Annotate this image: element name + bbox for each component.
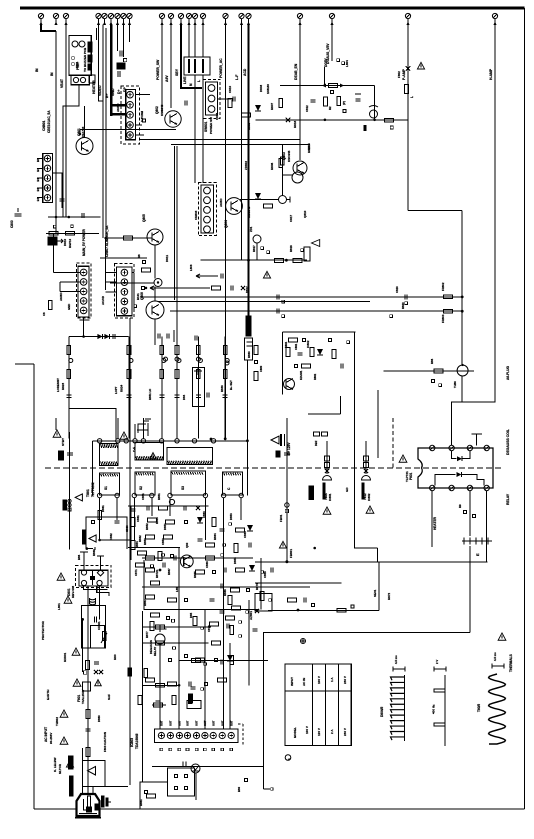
svg-text:D810: D810 <box>63 238 67 246</box>
svg-text:R816: R816 <box>293 120 297 128</box>
svg-text:3.3V/8M: 3.3V/8M <box>140 110 144 122</box>
T801 riser 177 <box>176 438 178 440</box>
svg-text:R818: R818 <box>289 245 293 252</box>
bottom small parts <box>139 791 156 807</box>
res R806 <box>242 113 251 117</box>
schematic sheet border left <box>33 364 35 809</box>
AC chain wire2 <box>99 586 101 619</box>
connector CN801 <box>43 154 53 203</box>
svg-text:B1: B1 <box>36 197 40 201</box>
chain x161 <box>159 337 166 439</box>
rail y301 <box>158 301 371 303</box>
cluster opto <box>288 598 315 612</box>
svg-text:IC852: IC852 <box>367 493 371 501</box>
bridge D801 dashed box <box>75 565 111 587</box>
svg-text:FR802: FR802 <box>441 282 445 291</box>
wire x462 mid <box>461 210 463 365</box>
svg-text:KSC945: KSC945 <box>247 206 251 218</box>
CN802 right stubs <box>136 95 151 135</box>
sec extra parts3 <box>206 543 252 553</box>
warn tri i <box>66 760 73 767</box>
connector CN807 body <box>117 267 132 316</box>
svg-text:R80: R80 <box>113 654 117 660</box>
plug bottom plate <box>75 817 101 819</box>
isolation dashed vertical <box>392 418 394 468</box>
sec rail y558 <box>142 557 253 559</box>
T801 riser 135 <box>134 424 136 439</box>
bridge D801 body <box>79 570 108 586</box>
aux vertical x69 <box>69 432 71 549</box>
wire x495 drop <box>452 25 495 446</box>
SW801 body <box>206 82 218 115</box>
svg-text:100 V: 100 V <box>317 676 321 684</box>
junction circle Q803 emitter <box>240 196 290 204</box>
sec vert x127 <box>129 318 131 785</box>
h-rail y610 <box>268 609 379 611</box>
warn tri c <box>120 432 128 439</box>
warn tri bridge <box>57 573 65 580</box>
label posistor <box>430 358 457 388</box>
wire Q806 net <box>154 287 156 302</box>
label Q805 cluster <box>140 214 169 300</box>
svg-text:R9: R9 <box>458 504 462 508</box>
bus x177 long <box>176 146 178 439</box>
plug right bracket <box>102 796 112 807</box>
bridge risers <box>80 552 104 570</box>
svg-text:R820: R820 <box>401 302 405 309</box>
transistor Q807 <box>180 555 193 568</box>
T801 winding S2 <box>135 472 155 495</box>
vert x56 low <box>55 418 57 430</box>
svg-text:TDA16846: TDA16846 <box>135 733 139 749</box>
pin row dashed corner <box>238 724 243 745</box>
terminal pad P20 <box>329 13 334 25</box>
svg-text:KSC945: KSC945 <box>160 104 164 116</box>
ic feed x160 <box>159 644 161 729</box>
svg-text:IN: IN <box>50 72 54 76</box>
bar mark L <box>364 126 366 131</box>
T801 cap stub b <box>145 419 151 431</box>
plug inner line <box>79 813 97 815</box>
cap on rail217 <box>55 213 84 218</box>
svg-text:R809: R809 <box>247 122 251 130</box>
terminal pad P10 <box>159 13 164 25</box>
svg-text:C-E: C-E <box>132 447 136 452</box>
box AZ801 <box>249 594 272 620</box>
svg-text:A6/3D: A6/3D <box>59 292 63 301</box>
label THERMALS right <box>498 633 513 672</box>
svg-text:L: L <box>410 96 414 98</box>
res R807 col <box>279 99 283 108</box>
bridge pins <box>81 570 103 586</box>
res R819 on x282 <box>281 157 284 165</box>
circled plus on box <box>301 639 306 644</box>
terminal pad P22 <box>492 13 497 25</box>
sec box left edge <box>130 506 132 560</box>
label P801 <box>405 471 413 482</box>
plug prong left <box>84 799 88 810</box>
T801 riser 143 <box>142 418 144 439</box>
line filter bars <box>84 586 110 596</box>
plug feed wire c <box>92 787 94 807</box>
res on rail238 <box>124 236 133 240</box>
parts rail660 <box>192 656 234 666</box>
terminal pad P11 <box>168 13 173 25</box>
sec cluster r6 <box>151 581 250 592</box>
svg-text:E: E <box>475 553 480 556</box>
terminal pad P19 <box>297 13 302 25</box>
svg-text:Q805: Q805 <box>142 214 146 222</box>
terminal pad P7 <box>115 13 120 25</box>
electro cap C818 <box>192 367 204 406</box>
warn tri e <box>279 541 286 548</box>
sec drop 99 <box>99 498 101 540</box>
svg-text:DEAB_EN: DEAB_EN <box>294 63 298 80</box>
erroramp extra <box>329 339 350 369</box>
sec cluster r1 <box>141 493 200 511</box>
waveform pulse spikes <box>434 689 445 726</box>
IC801 indicator circles <box>72 41 87 72</box>
note circle <box>285 755 291 761</box>
AC chain wire <box>87 586 89 768</box>
CN806 feed bus <box>54 233 80 291</box>
corner wire mid <box>308 396 340 414</box>
svg-text:T801: T801 <box>86 489 90 497</box>
wire x181 drop <box>181 25 202 89</box>
junction y238 <box>104 237 107 240</box>
svg-text:OUT: OUT <box>160 720 164 726</box>
svg-text:NLTCR: NLTCR <box>58 763 62 774</box>
posistor circle <box>457 364 468 376</box>
chain x129 <box>127 337 134 439</box>
left bar mark <box>128 668 148 678</box>
thermistor TH802 <box>86 710 101 723</box>
wire Q801 collector <box>84 106 86 138</box>
table divider v3 <box>337 664 339 746</box>
wire x487 low <box>486 491 488 562</box>
svg-text:R852: R852 <box>145 523 149 530</box>
rail y660 <box>179 660 268 662</box>
erroramp box right <box>354 332 356 477</box>
svg-text:C863: C863 <box>202 511 206 518</box>
wire x248 thick bus <box>247 25 249 317</box>
wire row y129 <box>80 129 176 131</box>
plug box warn tri <box>88 767 96 776</box>
relay RL801 outline <box>418 448 493 488</box>
svg-text:THERMALS: THERMALS <box>509 654 513 672</box>
svg-text:B1: B1 <box>36 187 40 191</box>
rail y311 <box>170 310 462 312</box>
sq pad <box>123 58 126 61</box>
rail y371 right <box>384 370 474 372</box>
terminal pad P13 <box>186 13 191 25</box>
transistor Q808 <box>284 379 295 390</box>
fuse cluster <box>83 661 103 675</box>
rail371 marks <box>432 380 442 387</box>
svg-text:LIVE: LIVE <box>183 76 187 84</box>
parts rail643 <box>156 609 260 650</box>
warn tri fuse <box>73 679 81 686</box>
plug prong right <box>95 804 99 810</box>
opto rail <box>152 765 264 767</box>
wire x470 low <box>469 491 471 536</box>
cap C801 <box>60 199 65 201</box>
svg-text:HEATER: HEATER <box>433 516 437 530</box>
rail y643 <box>143 642 209 644</box>
svg-text:R88: R88 <box>430 358 434 364</box>
relay top pins <box>430 445 490 450</box>
connector CN806 dashed <box>76 263 91 318</box>
plug feed wire b <box>87 765 89 810</box>
x408 fuse cluster <box>397 62 425 78</box>
waveform sine marker <box>492 652 504 669</box>
table divider v1 <box>312 664 314 746</box>
sec drop 134 <box>133 498 135 540</box>
warn tri q803 <box>312 240 320 247</box>
sec extra parts2 <box>212 518 253 532</box>
plug prong mid <box>87 796 92 812</box>
wire IN left drop <box>41 25 56 32</box>
wire x203 to CN803 <box>202 75 204 183</box>
connector CN807 dashed <box>114 264 134 318</box>
svg-text:R861: R861 <box>284 341 288 348</box>
label Q802 KSC945 <box>155 104 164 116</box>
svg-text:EARTH: EARTH <box>46 690 50 700</box>
IC801 sub circles <box>73 77 85 82</box>
svg-text:TLP721: TLP721 <box>405 471 409 482</box>
col2 vert upper <box>377 390 379 458</box>
SW801 right leads <box>218 85 236 101</box>
svg-text:C856: C856 <box>263 571 267 578</box>
terminal pad P2 <box>53 13 58 25</box>
svg-text:OUT: OUT <box>186 720 190 726</box>
corner x68 bottom <box>69 409 116 440</box>
label D801 bridge <box>67 585 75 598</box>
col1 pre labels <box>313 432 327 446</box>
wire x105 drop <box>105 28 107 238</box>
terminal pad P3 <box>63 13 68 25</box>
sec h-rail y586 <box>142 586 310 588</box>
svg-text:R808: R808 <box>270 162 274 170</box>
electrolytic C815 body <box>245 316 253 360</box>
sec labels col <box>136 515 159 542</box>
svg-text:R855: R855 <box>193 571 197 578</box>
left parts col mid <box>137 254 151 290</box>
svg-text:MODEL: MODEL <box>293 727 297 738</box>
svg-text:S3: S3 <box>181 486 185 490</box>
parts rail685 <box>156 684 204 691</box>
svg-text:OUT: OUT <box>178 720 182 726</box>
waveform D804 flyback pulses <box>391 675 405 741</box>
svg-text:IN: IN <box>35 68 39 72</box>
svg-text:STBY: STBY <box>61 438 65 446</box>
sec left parts <box>92 505 131 556</box>
wire stub left y129 <box>79 130 81 136</box>
svg-text:OUT: OUT <box>220 720 224 726</box>
terminal pad P6 <box>108 13 113 25</box>
wire IC801 down <box>63 85 79 217</box>
plug feed wire a <box>81 748 83 805</box>
wire x247 to T801 <box>246 360 248 441</box>
wire x241 bus <box>241 25 243 261</box>
wire x332 drop <box>331 25 333 62</box>
svg-text:C866: C866 <box>205 561 209 568</box>
svg-text:CBE101AC_5A: CBE101AC_5A <box>47 110 51 133</box>
svg-text:IC803: IC803 <box>130 738 134 747</box>
svg-text:OUT: OUT <box>195 720 199 726</box>
svg-text:DEGAUSS COIL: DEGAUSS COIL <box>506 429 510 455</box>
label chain129 <box>114 384 123 394</box>
svg-text:D855: D855 <box>233 557 237 564</box>
label blob a <box>88 42 92 52</box>
T801 winding P2 <box>135 443 164 461</box>
svg-text:100 V: 100 V <box>305 726 309 734</box>
svg-text:Q810: Q810 <box>303 210 307 218</box>
svg-text:CN803: CN803 <box>194 210 198 220</box>
starter box parts <box>77 521 96 561</box>
warn tri col2 <box>366 506 374 513</box>
IC803 pin numbers <box>160 748 232 751</box>
svg-text:P-AMP: P-AMP <box>402 68 406 80</box>
svg-text:A6/3D: A6/3D <box>219 198 223 207</box>
warn tri d <box>150 453 157 459</box>
starter box <box>86 517 127 549</box>
warn tri mid <box>263 271 270 278</box>
label F801 <box>77 689 85 704</box>
sec drop 117 <box>116 498 118 520</box>
svg-text:D851: D851 <box>163 523 167 530</box>
rail y217 <box>48 216 100 218</box>
svg-text:R872b: R872b <box>155 569 159 578</box>
AC chain wire3 <box>82 619 84 672</box>
degauss posistor circle <box>149 625 165 656</box>
svg-text:L-F: L-F <box>235 75 239 80</box>
svg-text:R851: R851 <box>157 493 161 500</box>
svg-text:R874: R874 <box>255 583 259 590</box>
svg-text:Q803: Q803 <box>282 152 286 160</box>
svg-text:SW801: SW801 <box>204 121 208 132</box>
parts rail705 <box>154 694 202 708</box>
svg-text:R877: R877 <box>145 631 149 638</box>
res R808 col <box>279 159 283 168</box>
svg-text:R862: R862 <box>313 373 317 380</box>
svg-text:R863: R863 <box>155 517 159 524</box>
svg-text:RELAY: RELAY <box>506 493 510 505</box>
diode blob D804 <box>117 63 125 69</box>
svg-text:T80/5: T80/5 <box>477 704 481 712</box>
wire row y145 <box>171 144 310 146</box>
svg-text:D853: D853 <box>229 513 233 520</box>
isolation dashed line <box>45 467 501 469</box>
CN801 pin ticks <box>36 158 43 201</box>
corner tick bottom <box>264 788 273 790</box>
stripe bar label <box>309 486 314 499</box>
rail y238 right <box>106 237 152 239</box>
svg-text:OUT: OUT <box>229 720 233 726</box>
table divider h <box>285 690 351 692</box>
tick x96 <box>96 28 98 40</box>
svg-text:2 V: 2 V <box>435 660 439 664</box>
svg-text:4.5 ms: 4.5 ms <box>493 652 497 661</box>
sec drop 241 <box>240 498 242 520</box>
label IC803 <box>130 733 139 749</box>
transistor Q805 <box>147 229 163 245</box>
junction y561 <box>285 560 288 563</box>
spec table outer <box>285 664 351 746</box>
IC803 pin row box <box>155 729 238 743</box>
table cell text <box>290 676 347 738</box>
cap between chains <box>207 393 209 398</box>
rail y297 <box>140 296 462 298</box>
diode D805 <box>255 105 261 111</box>
svg-text:B88: B88 <box>77 554 81 560</box>
Q803 base tie <box>282 174 292 176</box>
terminal pad P21 <box>405 13 410 25</box>
warn tri T801 <box>53 430 61 437</box>
svg-text:B+ SET: B+ SET <box>229 380 233 390</box>
switch SW801 dashed box <box>203 79 220 118</box>
T801 right lead <box>246 441 248 496</box>
ic feed x223 seg <box>222 609 224 729</box>
warn tri below filter <box>72 648 80 655</box>
sec rail y547 <box>128 547 180 549</box>
svg-text:AC/3D: AC/3D <box>101 295 105 305</box>
waveform pulse marker <box>434 660 446 672</box>
svg-text:A6V: A6V <box>165 75 169 82</box>
svg-text:R824: R824 <box>119 384 123 392</box>
wire x171 drop <box>170 25 172 109</box>
svg-text:L85: L85 <box>175 587 179 592</box>
svg-text:S2: S2 <box>139 486 143 490</box>
res on x408 <box>405 85 414 99</box>
sec cluster r3 <box>143 535 203 545</box>
label AC INPUT <box>44 727 53 744</box>
sec pack3 <box>255 583 271 601</box>
wire x225 long bus <box>225 25 227 440</box>
svg-text:KSC945: KSC945 <box>287 150 291 162</box>
relay bottom pins <box>430 485 490 490</box>
T801 riser 194 <box>194 438 196 440</box>
erroramp labels <box>284 340 317 380</box>
res R805 <box>228 99 232 108</box>
big box corner <box>264 632 470 789</box>
svg-text:C860: C860 <box>259 365 263 372</box>
T801 secondary pin row <box>97 493 243 497</box>
schematic sheet border top <box>20 7 525 10</box>
junction dots risers <box>210 437 249 442</box>
svg-text:D880: D880 <box>97 715 101 722</box>
svg-text:RGP10: RGP10 <box>68 238 72 248</box>
relay contact diode lower <box>435 472 484 485</box>
svg-text:T4AL250V: T4AL250V <box>81 689 85 704</box>
thick feed pin2 <box>111 104 126 107</box>
T801 winding S4 <box>223 472 243 495</box>
svg-text:S1: S1 <box>104 486 108 490</box>
small parts fuse <box>83 680 102 691</box>
svg-text:C8: C8 <box>42 312 46 316</box>
svg-text:RBV-406: RBV-406 <box>71 585 75 598</box>
svg-text:D+: D+ <box>117 90 121 94</box>
svg-text:B1: B1 <box>36 178 40 182</box>
svg-text:D812: D812 <box>245 286 249 293</box>
small box label <box>89 75 95 83</box>
sec cluster r8 <box>151 613 235 620</box>
left arrow tri x78 <box>75 494 82 501</box>
svg-text:F801: F801 <box>75 61 79 68</box>
svg-text:400 Hz: 400 Hz <box>431 704 435 714</box>
wire x300 drop <box>299 25 301 161</box>
svg-text:C808: C808 <box>215 112 219 120</box>
